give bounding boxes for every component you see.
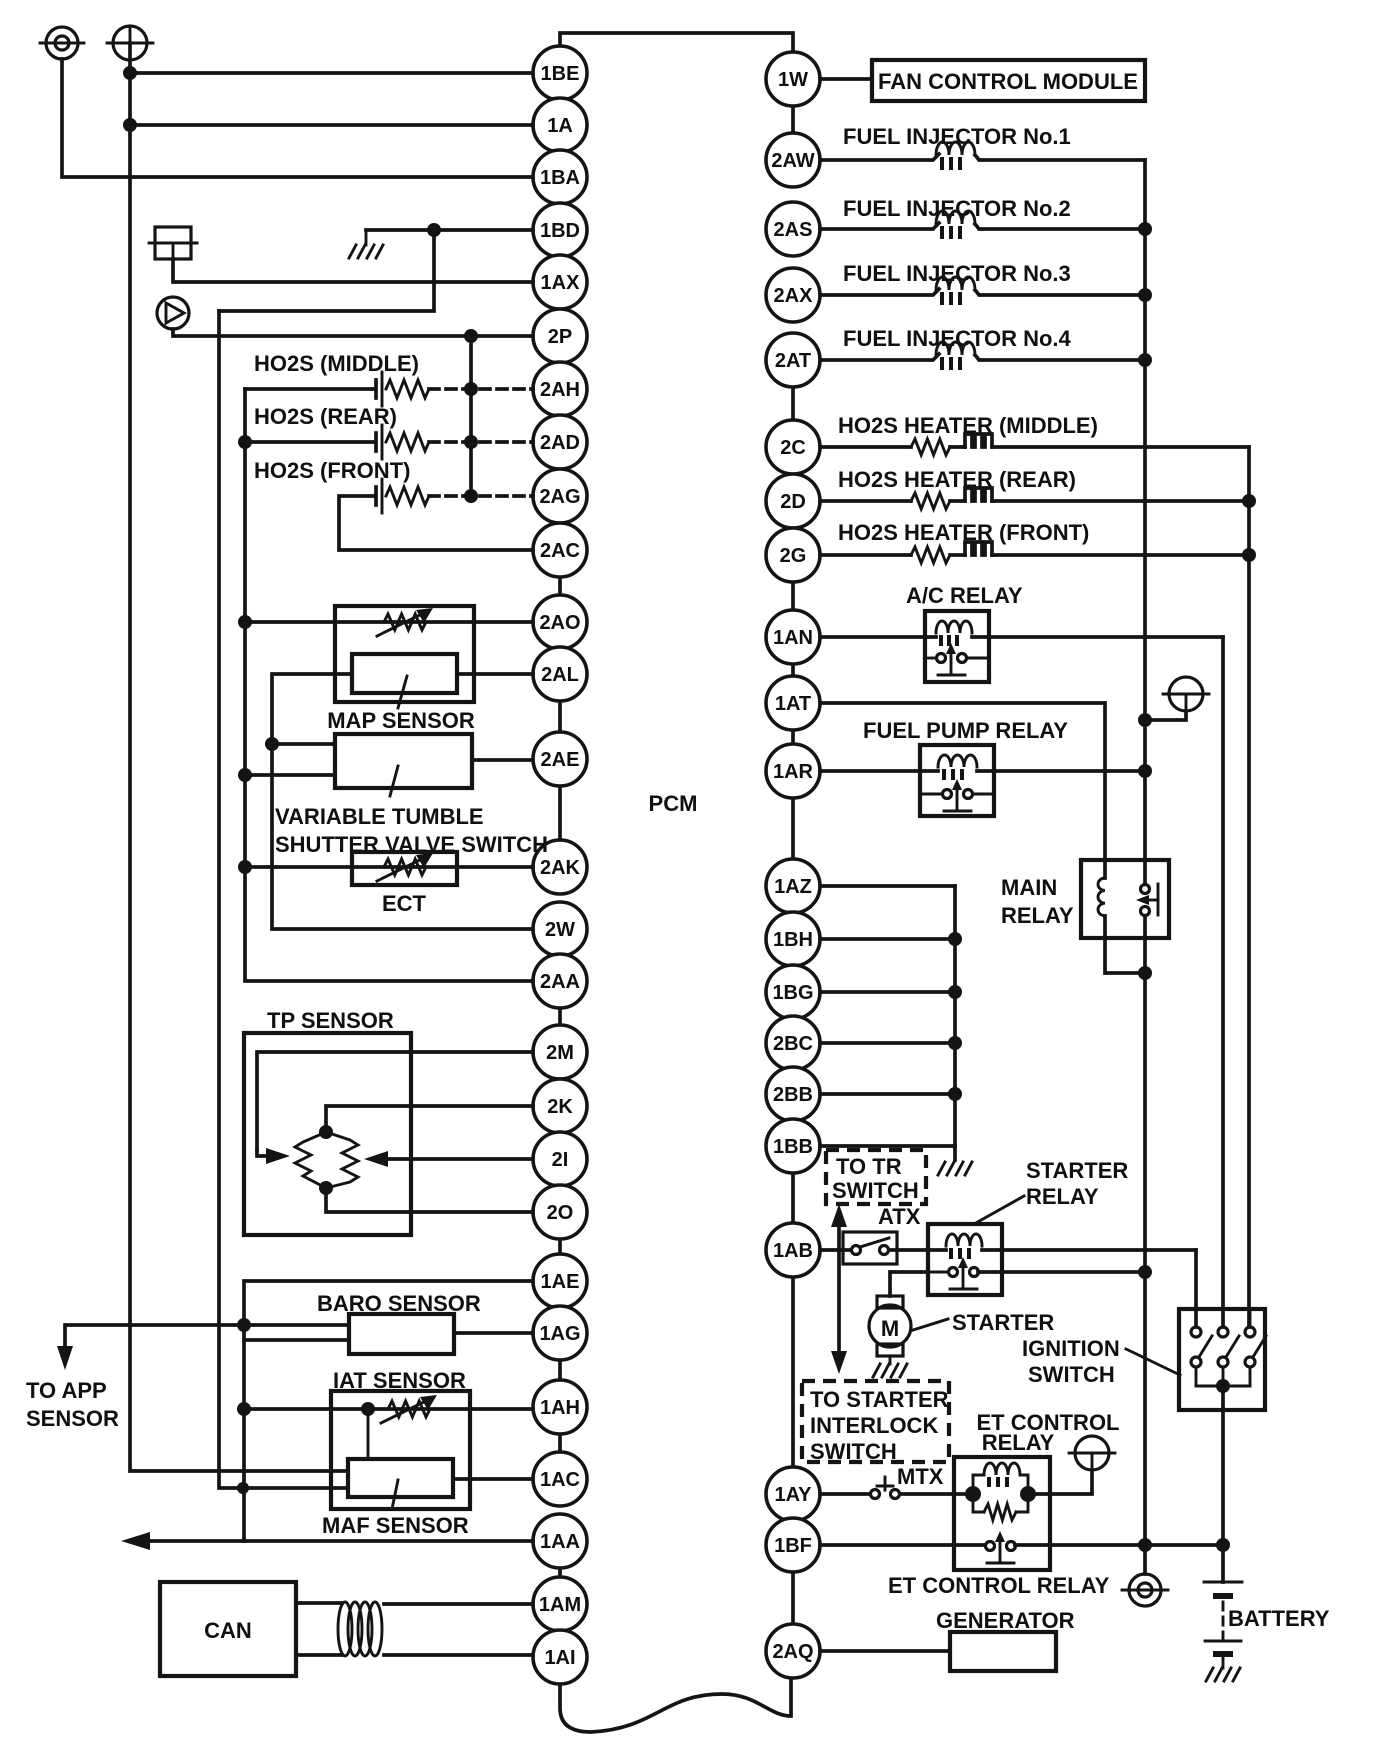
svg-text:PCM: PCM [649, 791, 698, 816]
svg-text:1AR: 1AR [773, 761, 814, 783]
svg-text:FUEL INJECTOR No.2: FUEL INJECTOR No.2 [843, 196, 1071, 221]
svg-text:FUEL INJECTOR No.3: FUEL INJECTOR No.3 [843, 261, 1071, 286]
svg-text:2AC: 2AC [540, 540, 580, 562]
power symbol (battery feed circle) [107, 26, 153, 60]
wire IAT to MAF element [367, 1409, 370, 1459]
svg-text:1AM: 1AM [539, 1594, 581, 1616]
wire A/C relay to ignition switch ACC [1221, 637, 1225, 1327]
wire 2O from TP sensor [326, 1188, 533, 1212]
svg-text:2AO: 2AO [539, 612, 580, 634]
A/C relay coil [820, 621, 1223, 646]
junction dot main relay coil return [1138, 966, 1152, 980]
svg-text:1AB: 1AB [773, 1240, 813, 1262]
MAP sensor outer box [335, 606, 474, 702]
ET control relay box [954, 1457, 1050, 1570]
junction dot 1A branch [123, 118, 137, 132]
svg-text:1BA: 1BA [540, 167, 580, 189]
wire 2AK through ECT [245, 865, 533, 869]
svg-text:HO2S HEATER (REAR): HO2S HEATER (REAR) [838, 467, 1076, 492]
junction dot VTSS upper branch [265, 737, 279, 751]
svg-text:2M: 2M [546, 1042, 574, 1064]
wire 2AD (dashed) [429, 440, 533, 444]
PCM pin 2AT [766, 333, 820, 387]
TP wiper arrow left [257, 1148, 290, 1164]
svg-text:1AY: 1AY [774, 1484, 812, 1506]
ground (battery) [1206, 1668, 1240, 1681]
svg-text:2C: 2C [780, 437, 806, 459]
TP sensor box [244, 1033, 411, 1235]
svg-text:MAP SENSOR: MAP SENSOR [327, 708, 475, 733]
PCM pin 1AN [766, 610, 820, 664]
svg-text:ECT: ECT [382, 891, 427, 916]
main relay contact [1136, 860, 1158, 938]
wire 1BB [820, 1144, 955, 1148]
PCM pin 2AO [533, 595, 587, 649]
junction dot 2AO branch [238, 615, 252, 629]
wire main relay coil return [1105, 938, 1145, 973]
svg-text:RELAY: RELAY [1026, 1184, 1099, 1209]
PCM pin 1AE [533, 1254, 587, 1308]
TR/interlock double arrow [831, 1204, 847, 1374]
PCM pin 1AY [766, 1467, 820, 1521]
svg-text:1AX: 1AX [541, 272, 581, 294]
ignition switch pole 1 [1191, 1309, 1212, 1386]
STARTER RELAY label [974, 1158, 1128, 1224]
PCM pin 2G [766, 528, 820, 582]
wire 1AX from joint connector [173, 259, 533, 282]
PCM pin 1AX [533, 255, 587, 309]
wire 1AA with arrow [121, 1532, 533, 1550]
wire VTSS lower [245, 773, 335, 777]
svg-text:STARTER: STARTER [952, 1310, 1054, 1335]
ground (starter motor) [873, 1356, 907, 1377]
svg-text:2W: 2W [545, 919, 575, 941]
ET CONTROL RELAY (box) label [977, 1410, 1120, 1455]
junction dot VTSS lower branch [238, 768, 252, 782]
ET relay coil+resistor parallel [965, 1463, 1036, 1520]
svg-text:2AG: 2AG [539, 486, 580, 508]
junction dot HO2S middle node [464, 382, 478, 396]
battery cells [1204, 1582, 1242, 1668]
starter relay box [928, 1224, 1002, 1295]
A/C relay box [925, 611, 989, 682]
MTX switch [871, 1464, 944, 1499]
svg-text:VARIABLE TUMBLE: VARIABLE TUMBLE [275, 804, 484, 829]
svg-text:1AZ: 1AZ [774, 876, 812, 898]
wire 2M into TP sensor [257, 1052, 533, 1150]
svg-text:2AH: 2AH [540, 379, 580, 401]
svg-text:1AI: 1AI [544, 1647, 575, 1669]
svg-text:1BB: 1BB [773, 1136, 813, 1158]
PCM pin 2AK [533, 840, 587, 894]
VARIABLE TUMBLE SHUTTER VALVE SWITCH label [275, 804, 548, 857]
starter motor M [869, 1296, 911, 1356]
junction dot starter relay contact / bus [1138, 1265, 1152, 1279]
svg-text:1AT: 1AT [775, 693, 811, 715]
svg-text:2D: 2D [780, 491, 806, 513]
wire VTSS upper [272, 742, 335, 746]
ground (1BD net) [349, 230, 383, 258]
svg-text:FAN CONTROL MODULE: FAN CONTROL MODULE [878, 69, 1138, 94]
wire CAN high to 1AM [296, 1603, 533, 1604]
ground (PCM bus) [938, 1162, 972, 1175]
svg-text:2AS: 2AS [774, 219, 813, 241]
starter relay contact [928, 1257, 1145, 1289]
junction dot 2P node [464, 329, 478, 343]
wire 1AG from BARO [454, 1331, 533, 1335]
FUEL INJECTOR No.1 coil [820, 142, 1145, 170]
MAP inner element box [352, 654, 457, 708]
wire BARO upper / TO APP SENSOR branch [57, 1325, 349, 1370]
svg-text:2BC: 2BC [773, 1033, 813, 1055]
svg-text:SENSOR: SENSOR [26, 1406, 119, 1431]
HO2S (MIDDLE) sensor cell [245, 372, 429, 406]
wire 1BD [366, 228, 533, 232]
junction dot injector 2 [1138, 222, 1152, 236]
fuel pump relay box [920, 745, 994, 816]
PCM pin 1AZ [766, 859, 820, 913]
PCM pin 1W [766, 52, 820, 106]
PCM pin 2D [766, 474, 820, 528]
junction dot 1BG [948, 985, 962, 999]
wire HO2S reference node vertical [469, 336, 473, 496]
PCM pin 2AE [533, 732, 587, 786]
wire MAP element to 2W riser [272, 674, 533, 929]
power symbol (double circle, ground point) [40, 27, 84, 59]
junction dot injector 4 [1138, 353, 1152, 367]
PCM pin 2AQ [766, 1624, 820, 1678]
PCM pin 2M [533, 1025, 587, 1079]
PCM pin 2AS [766, 202, 820, 256]
wire 1AZ [820, 884, 955, 888]
TO APP SENSOR label [26, 1378, 119, 1431]
wire 2I with wiper arrow [364, 1151, 533, 1167]
svg-text:CAN: CAN [204, 1618, 252, 1643]
MAF element box [348, 1459, 453, 1509]
PCM pin 2I [533, 1132, 587, 1186]
junction dot battery feed [1138, 713, 1152, 727]
wire left trunk (sensor shield net) down to MAF sensor [219, 311, 348, 1488]
PCM pin 1A [533, 98, 587, 152]
FUEL INJECTOR No.4 coil [820, 342, 1145, 370]
ATX inhibitor switch [843, 1232, 897, 1264]
PCM pin 1AM [533, 1577, 587, 1631]
PCM pin 1AB [766, 1223, 820, 1277]
PCM pin 1BE [533, 46, 587, 100]
svg-text:MTX: MTX [897, 1464, 944, 1489]
svg-text:SWITCH: SWITCH [810, 1439, 897, 1464]
junction dot HO2S rear branch [238, 435, 252, 449]
svg-text:ET CONTROL RELAY: ET CONTROL RELAY [888, 1573, 1110, 1598]
junction dot ignition common [1216, 1379, 1230, 1393]
svg-text:HO2S (REAR): HO2S (REAR) [254, 404, 397, 429]
PCM pin 2AW [766, 133, 820, 187]
PCM pin 2W [533, 902, 587, 956]
svg-text:2AQ: 2AQ [772, 1641, 813, 1663]
TO STARTER INTERLOCK SWITCH dashed box [802, 1381, 949, 1464]
fuel pump relay coil [820, 755, 1145, 780]
svg-text:1AH: 1AH [540, 1397, 580, 1419]
svg-text:2AE: 2AE [541, 749, 580, 771]
ignition feed symbol [1069, 1436, 1115, 1470]
junction dot 1BF/main bus [1138, 1538, 1152, 1552]
PCM pin 2AL [533, 647, 587, 701]
svg-text:2P: 2P [548, 326, 572, 348]
junction dot 2BB [948, 1087, 962, 1101]
ignition switch box [1179, 1309, 1265, 1410]
PCM pin 1AG [533, 1306, 587, 1360]
wire ATX to starter relay coil [889, 1248, 946, 1252]
PCM pin 1BG [766, 965, 820, 1019]
svg-text:MAIN: MAIN [1001, 875, 1057, 900]
main bus end symbol [1122, 1574, 1168, 1606]
svg-text:INTERLOCK: INTERLOCK [810, 1413, 938, 1438]
svg-text:2AW: 2AW [771, 150, 814, 172]
svg-text:2I: 2I [552, 1149, 569, 1171]
junction dot HO2S front node [464, 489, 478, 503]
PCM pin 2BC [766, 1016, 820, 1070]
junction dot 1BD/trunk [427, 223, 441, 237]
PCM pin 2BB [766, 1067, 820, 1121]
svg-text:2AX: 2AX [774, 285, 814, 307]
wire starter relay contact to starter motor [890, 1272, 928, 1296]
svg-text:1BG: 1BG [772, 982, 813, 1004]
svg-text:2AA: 2AA [540, 971, 580, 993]
wire from power symbol to 1BA [62, 59, 533, 177]
ET relay contact on 1BF line [820, 1531, 1223, 1563]
wire 2AE from VTSS [472, 758, 533, 762]
svg-text:MAF SENSOR: MAF SENSOR [322, 1513, 469, 1538]
wire starter relay coil to ignition START [1194, 1250, 1198, 1327]
wire 1AH through IAT thermistor [244, 1407, 533, 1411]
FUEL INJECTOR No.2 coil [820, 211, 1145, 239]
wire 1W [820, 77, 872, 81]
wire 1BH [820, 937, 955, 941]
svg-text:FUEL INJECTOR No.1: FUEL INJECTOR No.1 [843, 124, 1071, 149]
wire 1A [130, 123, 533, 127]
junction dot 1BF/battery [1216, 1538, 1230, 1552]
junction dot 1BH [948, 932, 962, 946]
svg-text:2K: 2K [547, 1096, 573, 1118]
wire injector supply bus [1143, 160, 1147, 860]
svg-text:1A: 1A [547, 115, 573, 137]
svg-text:A/C RELAY: A/C RELAY [906, 583, 1023, 608]
wire right pin column connectors [791, 106, 795, 1624]
junction dot BARO/TO-APP branch [237, 1318, 251, 1332]
main relay coil [1098, 860, 1105, 938]
PCM pin 2AC [533, 523, 587, 577]
svg-text:2G: 2G [780, 545, 807, 567]
wire 2AH (dashed) [429, 387, 533, 391]
svg-text:1AG: 1AG [539, 1323, 580, 1345]
PCM pin 2AX [766, 268, 820, 322]
ignition switch pole 2 [1218, 1309, 1239, 1386]
wire left pin column connectors [558, 577, 562, 1577]
wire 2AO through MAP thermistor [245, 620, 533, 624]
svg-text:2BB: 2BB [773, 1084, 813, 1106]
battery feed symbol [1163, 677, 1209, 711]
svg-text:BATTERY: BATTERY [1228, 1606, 1330, 1631]
wire ignition common to battery [1221, 1386, 1225, 1582]
PCM pin 1AH [533, 1380, 587, 1434]
svg-text:ATX: ATX [878, 1204, 921, 1229]
junction dot injector 3 [1138, 288, 1152, 302]
PCM pin 2C [766, 420, 820, 474]
wire 2K into TP sensor [326, 1106, 533, 1132]
wire 2P [173, 329, 533, 336]
svg-text:SWITCH: SWITCH [832, 1178, 919, 1203]
wire 1BD to left trunk [219, 230, 434, 311]
VTSS box [335, 734, 472, 796]
wire 1AY to MTX [820, 1492, 870, 1496]
wire heater supply bus [1247, 447, 1251, 1327]
svg-text:FUEL PUMP RELAY: FUEL PUMP RELAY [863, 718, 1068, 743]
svg-text:HO2S (FRONT): HO2S (FRONT) [254, 458, 410, 483]
svg-text:2AD: 2AD [540, 432, 580, 454]
junction dot 1BE branch [123, 66, 137, 80]
IAT sensor outer box [331, 1391, 470, 1509]
svg-text:1AA: 1AA [540, 1531, 580, 1553]
wire 2AG (dashed) [429, 494, 533, 498]
PCM pin 1BD [533, 203, 587, 257]
wire ET relay coil to IGN feed [1028, 1470, 1092, 1494]
svg-text:2AT: 2AT [775, 350, 811, 372]
PCM pin 2K [533, 1079, 587, 1133]
svg-text:FUEL INJECTOR No.4: FUEL INJECTOR No.4 [843, 326, 1072, 351]
PCM pin 1BB [766, 1119, 820, 1173]
generator box [950, 1632, 1056, 1671]
main relay box [1081, 860, 1169, 938]
PCM pin 1BA [533, 150, 587, 204]
PCM pin 1BF [766, 1518, 820, 1572]
svg-text:STARTER: STARTER [1026, 1158, 1128, 1183]
TO TR SWITCH dashed box [826, 1150, 926, 1204]
CAN box [160, 1582, 296, 1676]
svg-text:1BE: 1BE [541, 63, 580, 85]
ignition switch common bar [1196, 1385, 1250, 1388]
wire trunk from battery feed down to MAF sensor [130, 43, 348, 1471]
wire PCM bottom boundary (wavy) [560, 1678, 791, 1732]
svg-text:1W: 1W [778, 69, 808, 91]
junction dot HO2S rear node [464, 435, 478, 449]
svg-text:M: M [881, 1316, 899, 1341]
wire 2AL from MAP element [457, 672, 533, 676]
svg-text:SWITCH: SWITCH [1028, 1362, 1115, 1387]
wire battery feed to bus [1145, 711, 1186, 720]
wire 1BG [820, 990, 955, 994]
svg-text:HO2S (MIDDLE): HO2S (MIDDLE) [254, 351, 419, 376]
svg-text:2O: 2O [547, 1202, 574, 1224]
PCM pin 2AA [533, 954, 587, 1008]
svg-text:RELAY: RELAY [982, 1430, 1055, 1455]
BARO sensor box [349, 1314, 454, 1354]
svg-text:RELAY: RELAY [1001, 903, 1074, 928]
MAP variable resistor [377, 608, 433, 636]
svg-text:2AK: 2AK [540, 857, 581, 879]
junction dot heater rear [1242, 494, 1256, 508]
junction dot ECT branch [238, 860, 252, 874]
HO2S HEATER (FRONT) element [820, 542, 1249, 563]
junction dot IAT branch [237, 1402, 251, 1416]
PCM pin 2P [533, 309, 587, 363]
PCM pin 2AD [533, 415, 587, 469]
HO2S (REAR) sensor cell [245, 425, 429, 459]
PCM pin 2AH [533, 362, 587, 416]
wire PCM ground bus [953, 886, 957, 1160]
TP potentiometer [295, 1125, 358, 1195]
svg-text:1AN: 1AN [773, 627, 813, 649]
svg-text:1BD: 1BD [540, 220, 580, 242]
junction dot heater front [1242, 548, 1256, 562]
wire 1BE [130, 71, 533, 75]
wire 1AC from MAF [453, 1477, 533, 1481]
svg-text:TO STARTER: TO STARTER [810, 1387, 949, 1412]
junction dot sensor ground join [237, 1482, 249, 1494]
svg-text:1BH: 1BH [773, 929, 813, 951]
CAN twisted pair loops [338, 1602, 382, 1656]
PCM pin 1AC [533, 1452, 587, 1506]
wire main output bus [1143, 938, 1147, 1574]
IGNITION SWITCH label [1022, 1336, 1180, 1387]
PCM pin 1AI [533, 1630, 587, 1684]
svg-text:TO APP: TO APP [26, 1378, 107, 1403]
PCM pin 1AR [766, 744, 820, 798]
svg-text:TO TR: TO TR [836, 1154, 902, 1179]
svg-text:TP SENSOR: TP SENSOR [267, 1008, 394, 1033]
pump symbol (circle with triangle) [157, 297, 189, 329]
PCM pin 2O [533, 1185, 587, 1239]
wire 2BB [820, 1092, 955, 1096]
connector symbol (joint connector) [149, 227, 197, 259]
STARTER label [913, 1310, 1054, 1335]
svg-text:1AC: 1AC [540, 1469, 580, 1491]
wire 1AB [820, 1248, 850, 1252]
svg-text:1AE: 1AE [541, 1271, 580, 1293]
starter relay coil [946, 1234, 1196, 1259]
wire PCM top boundary [560, 33, 793, 52]
A/C relay contact [925, 643, 989, 675]
junction dot IAT/MAF link [361, 1402, 375, 1416]
ignition switch pole 3 [1245, 1309, 1266, 1386]
wire 1AT to main relay coil [820, 703, 1105, 860]
HO2S HEATER (MIDDLE) element [820, 434, 1249, 455]
MAIN RELAY label [1001, 875, 1074, 928]
FUEL INJECTOR No.3 coil [820, 277, 1145, 305]
wire 1AE sensor-ground bus [244, 1281, 533, 1541]
wire BARO lower branch [244, 1338, 349, 1342]
svg-text:GENERATOR: GENERATOR [936, 1608, 1075, 1633]
junction dot fuel pump relay supply [1138, 764, 1152, 778]
PCM pin 2AG [533, 469, 587, 523]
ECT box with variable resistor [352, 852, 457, 885]
junction dot 2BC [948, 1036, 962, 1050]
fuel pump relay contact [920, 779, 994, 811]
PCM pin 1AA [533, 1514, 587, 1568]
wire 2BC [820, 1041, 955, 1045]
svg-text:IGNITION: IGNITION [1022, 1336, 1120, 1361]
svg-text:2AL: 2AL [541, 664, 579, 686]
HO2S HEATER (REAR) element [820, 488, 1249, 509]
PCM pin 1BH [766, 912, 820, 966]
svg-text:1BF: 1BF [774, 1535, 812, 1557]
FAN CONTROL MODULE box [872, 60, 1145, 101]
wire CAN low to 1AI [296, 1653, 533, 1657]
wire HO2S sensor left bus [245, 389, 533, 981]
wire MTX to ET relay coil [900, 1492, 966, 1496]
HO2S (FRONT) sensor cell [339, 479, 533, 550]
PCM pin 1AT [766, 676, 820, 730]
wire 2AQ to generator [820, 1649, 950, 1653]
